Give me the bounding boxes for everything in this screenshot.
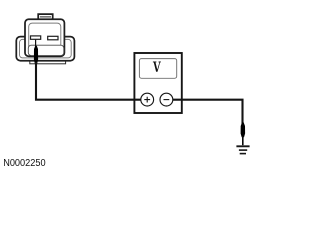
voltmeter plus terminal xyxy=(141,93,154,106)
voltmeter minus terminal xyxy=(160,93,173,106)
connector top tab inner line xyxy=(40,16,51,18)
pin 1 xyxy=(31,36,41,39)
minus sign xyxy=(164,99,170,101)
connector body inner xyxy=(29,23,61,53)
connector slot xyxy=(28,45,64,55)
wire from connector terminal to voltmeter plus xyxy=(36,62,141,100)
pin 2 xyxy=(48,36,58,40)
voltmeter display xyxy=(139,59,176,79)
ground bar 3 xyxy=(240,153,246,155)
ground lead xyxy=(242,136,244,145)
terminal (filled crimp) xyxy=(34,46,38,65)
connector flange outer xyxy=(16,37,74,61)
voltmeter box xyxy=(134,53,181,113)
voltmeter V label (serif V) xyxy=(153,62,161,72)
ground bar 2 xyxy=(239,149,247,151)
ground bar 1 xyxy=(236,145,249,147)
connector C1 xyxy=(16,14,74,64)
wire from voltmeter minus to ground xyxy=(173,100,243,124)
plus sign xyxy=(144,97,150,103)
svg-text:N0002250: N0002250 xyxy=(3,157,45,168)
connector bottom bump xyxy=(30,59,66,64)
connector body outer xyxy=(25,19,64,56)
connector top tab outer xyxy=(38,14,53,19)
ground terminal (filled wedge) xyxy=(241,122,246,137)
terminal lead xyxy=(35,40,37,47)
connector flange inner xyxy=(20,39,72,58)
